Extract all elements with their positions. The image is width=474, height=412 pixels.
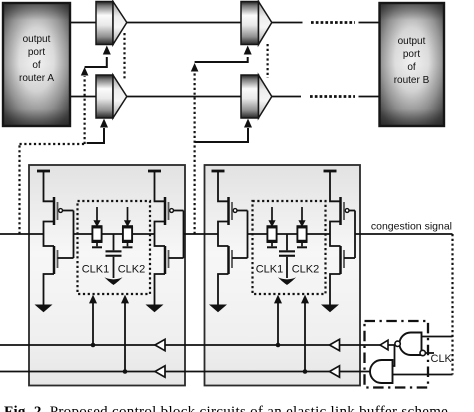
wire: data line 1 into router B: [359, 22, 380, 24]
capacitor C1 bottom plate: [106, 255, 122, 257]
output port of router A: [3, 3, 70, 126]
wire: dotted continuation of data line 1: [311, 21, 355, 24]
switch S3 input stem: [271, 207, 273, 221]
switch S1 top plate: [92, 225, 103, 227]
output port of router B: [380, 3, 445, 126]
wire: CLK1 feed riser (block 1): [92, 303, 94, 346]
VDD stem and PMOS source lead (inverter 1R): [155, 171, 166, 201]
elastic buffer stage block 2: [205, 165, 361, 386]
arrowhead of dotted enable at buffer B3 elbow: [191, 63, 199, 72]
tri-state buffer B3 (router B, line 1): [241, 2, 272, 45]
capacitor C1 lower stem: [113, 257, 115, 278]
dotted enable branch up to buffer B1 elbow: [83, 76, 85, 144]
wire: CLK1 bus (to NAND output): [0, 344, 395, 346]
ground (inverter 2L): [209, 305, 227, 313]
svg-text:CLK1: CLK1: [82, 264, 110, 276]
svg-text:of: of: [32, 60, 41, 71]
VDD bar (inverter 1L): [37, 170, 50, 173]
wire: buffer B3 output (data line 1): [272, 22, 303, 24]
direction arrow on CLK2 bus (block 1): [155, 366, 165, 377]
PMOS M5 gate bubble: [233, 209, 237, 213]
dash-dot clock gating box: [365, 321, 429, 388]
switch S1 input stem: [96, 207, 98, 221]
wire: inverter 1R gates across to inverter 2L drains: [184, 233, 219, 235]
svg-text:CLK2: CLK2: [292, 264, 320, 276]
wire: drain connector (inverter 2R): [330, 222, 341, 247]
CLK2 feed arrowhead into dotted box (block 2): [301, 295, 309, 304]
dotted box (clock switches, block 2): [253, 201, 326, 294]
capacitor C2 bottom plate: [279, 255, 295, 257]
junction: CLK1 riser on bus (block 2): [276, 343, 281, 348]
ground (inverter 1L): [35, 305, 53, 313]
switch S3 down arrowhead: [268, 220, 275, 227]
switch S4 input stem: [301, 207, 303, 221]
direction arrow on CLK2 bus (block 2): [330, 366, 340, 377]
wire: data line 2 into router B: [359, 96, 380, 98]
arrowhead of dotted enable at buffer B1 elbow: [81, 67, 89, 76]
switch S4 body: [297, 228, 306, 241]
wire: buffer B2 output to buffer B4 input: [127, 96, 242, 98]
wire: gate rail (inverter 2R): [354, 211, 356, 259]
PMOS M3 channel: [164, 197, 167, 225]
wire: inverter 2L gates through clock switches of block 2: [248, 233, 331, 235]
elastic buffer stage block 1: [29, 165, 185, 386]
ground (inverter 2R): [321, 305, 339, 313]
dotted enable line from congestion wire (middle riser): [194, 72, 196, 234]
PMOS M3 gate lead: [174, 210, 184, 212]
wire: NMOS source to ground (inverter 1R): [155, 274, 166, 305]
wire: dotted continuation of data line 2: [310, 95, 355, 98]
wire: drain connector (inverter 1R): [155, 222, 166, 247]
ground (capacitor C2): [278, 277, 296, 285]
wire: NMOS source to ground (inverter 2R): [330, 274, 341, 305]
switch S2 down arrowhead: [124, 220, 131, 227]
ground (inverter 1R): [146, 305, 164, 313]
tri-state buffer B2 (router A, line 2): [96, 75, 127, 118]
PMOS M1 gate lead: [63, 210, 74, 212]
NAND gate U1 (drives CLK1 bus): [399, 333, 421, 356]
switch S2 gate stem: [127, 243, 129, 246]
switch S3 gate bar: [267, 246, 277, 248]
VDD stem and PMOS source lead (inverter 1L): [44, 171, 55, 201]
svg-text:output: output: [398, 36, 426, 47]
switch S2 bottom plate: [122, 241, 133, 243]
NMOS M6 gate lead: [232, 257, 248, 259]
svg-text:port: port: [28, 47, 45, 58]
svg-text:router B: router B: [394, 75, 430, 86]
switch S1 gate bar: [92, 246, 102, 248]
dotted stub below buffer B3 tip: [267, 44, 269, 78]
switch S3 gate stem: [271, 243, 273, 246]
figure caption: [4, 405, 474, 412]
CLK2 feed arrowhead into dotted box (block 1): [121, 295, 129, 304]
wire: CLK2 feed riser (block 2): [304, 303, 306, 372]
direction arrow on CLK1 bus (block 2): [330, 339, 340, 350]
junction: CLK1 riser on bus (block 1): [91, 343, 96, 348]
solid elbow feeding buffer B4 enable: [195, 128, 248, 142]
svg-text:port: port: [403, 49, 420, 60]
direction arrow on CLK1 bus (gating box): [380, 340, 388, 350]
wire: NAND top input from congestion drop: [422, 336, 453, 338]
NMOS M8 gate bar: [343, 250, 345, 268]
svg-text:of: of: [407, 62, 416, 73]
enable arrow into buffer B1: [103, 46, 111, 55]
NMOS M4 gate lead: [169, 257, 184, 259]
solid elbow feeding buffer B1 enable: [85, 57, 107, 67]
svg-text:CLK: CLK: [431, 353, 453, 365]
junction: CLK2 riser on bus (block 2): [303, 369, 308, 374]
enable arrow into buffer B2: [100, 119, 108, 128]
switch S4 top plate: [297, 225, 308, 227]
svg-text:CLK1: CLK1: [256, 264, 284, 276]
CLK1 feed arrowhead into dotted box (block 1): [89, 295, 97, 304]
tri-state buffer B1 (router A, line 1): [96, 2, 127, 45]
solid elbow feeding buffer B2 enable: [87, 128, 104, 143]
wire: gate rail (inverter 2L): [247, 211, 249, 259]
enable arrow into buffer B4: [244, 119, 252, 128]
wire: CLK2 bus (to AND output): [0, 371, 375, 373]
VDD bar (inverter 2L): [212, 170, 225, 173]
wire: NMOS source to ground (inverter 2L): [218, 274, 229, 305]
NMOS M4 gate bar: [168, 250, 170, 268]
PMOS M5 channel: [227, 197, 230, 225]
enable arrow into buffer B3: [244, 46, 252, 55]
wire: inverter 2R gates out to congestion signal drop: [355, 233, 453, 235]
wire: drain connector (inverter 2L): [218, 222, 229, 247]
switch S4 gate stem: [301, 243, 303, 246]
switch S1 down arrowhead: [93, 220, 100, 227]
capacitor C2 lower stem: [286, 257, 288, 278]
PMOS M3 gate bar: [168, 202, 170, 220]
dotted enable line from congestion wire (left riser): [18, 144, 20, 234]
wire: buffer B1 output to buffer B3 input: [127, 22, 242, 24]
switch S2 top plate: [122, 225, 133, 227]
VDD bar (inverter 2R): [324, 170, 337, 173]
dotted box (clock switches, block 1): [78, 201, 151, 294]
direction arrow on CLK1 bus (block 1): [155, 339, 165, 350]
PMOS M7 gate bubble: [345, 209, 349, 213]
PMOS M5 gate lead: [237, 210, 247, 212]
capacitor C2 stem (block 2): [286, 234, 288, 250]
svg-text:output: output: [23, 34, 51, 45]
switch S3 body: [267, 228, 276, 241]
wire: CLK stub into NAND inverted input: [426, 352, 435, 354]
VDD stem and PMOS source lead (inverter 2R): [330, 171, 341, 201]
AND gate U2 (drives CLK2 bus): [370, 360, 393, 383]
wire: inverter 1L gates through clock switches of block 1: [74, 233, 155, 235]
NMOS M4 channel: [164, 246, 167, 274]
capacitor C1 stem (block 1): [113, 234, 115, 250]
capacitor C2 top plate: [279, 250, 295, 252]
switch S4 gate bar: [297, 246, 307, 248]
switch S2 input stem: [127, 207, 129, 221]
svg-text:CLK2: CLK2: [118, 264, 146, 276]
wire: AND top input tap from CLK1 bus: [393, 345, 395, 366]
wire: router A to buffer B1 input (data line 1): [70, 22, 96, 24]
capacitor C1 top plate: [106, 250, 122, 252]
switch S3 top plate: [267, 225, 278, 227]
wire: buffer B4 output (data line 2): [272, 96, 302, 98]
NMOS M2 channel: [53, 246, 56, 274]
NAND U1 output bubble: [395, 341, 400, 346]
wire: gate rail (inverter 1L): [73, 211, 75, 259]
NMOS M8 gate lead: [344, 257, 355, 259]
switch S3 bottom plate: [267, 241, 278, 243]
svg-text:congestion signal: congestion signal: [371, 221, 452, 233]
NMOS M2 gate bar: [57, 250, 59, 268]
VDD bar (inverter 1R): [148, 170, 161, 173]
wire: CLK1 feed riser (block 2): [277, 303, 279, 346]
wire: AND bottom input from congestion drop: [393, 374, 453, 376]
svg-text:router A: router A: [19, 73, 54, 84]
NMOS M2 gate lead: [58, 257, 74, 259]
NMOS M6 gate bar: [231, 250, 233, 268]
wire: CLK2 feed riser (block 1): [124, 303, 126, 372]
PMOS M5 gate bar: [231, 202, 233, 220]
dotted stub below buffer B1 tip: [123, 33, 125, 80]
PMOS M1 gate bubble: [59, 209, 63, 213]
PMOS M1 channel: [53, 197, 56, 225]
switch S2 body: [123, 228, 132, 241]
ground (capacitor C1): [105, 277, 123, 285]
switch S1 bottom plate: [92, 241, 103, 243]
PMOS M7 gate bar: [343, 202, 345, 220]
wire: gate rail (inverter 1R): [183, 211, 185, 259]
wire: congestion line left segment to inverter 1L drains: [0, 233, 44, 235]
NMOS M6 channel: [227, 246, 230, 274]
junction: CLK2 riser on bus (block 1): [123, 369, 128, 374]
VDD stem and PMOS source lead (inverter 2L): [218, 171, 229, 201]
wire: router A to buffer B2 input (data line 2): [70, 96, 96, 98]
PMOS M7 gate lead: [349, 210, 355, 212]
wire: NMOS source to ground (inverter 1L): [44, 274, 55, 305]
CLK1 feed arrowhead into dotted box (block 2): [274, 295, 282, 304]
switch S4 down arrowhead: [298, 220, 305, 227]
PMOS M7 channel: [339, 197, 342, 225]
PMOS M1 gate bar: [57, 202, 59, 220]
dotted enable line horizontal run below router A: [20, 143, 87, 145]
switch S4 bottom plate: [297, 241, 308, 243]
switch S2 gate bar: [123, 246, 133, 248]
dotted drop from congestion line to gating logic: [451, 234, 453, 375]
tri-state buffer B4 (router B, line 2): [241, 75, 272, 118]
NAND U1 inverted input bubble: [420, 350, 425, 355]
switch S1 gate stem: [96, 243, 98, 246]
PMOS M3 gate bubble: [170, 209, 174, 213]
switch S1 body: [92, 228, 101, 241]
wire: drain connector (inverter 1L): [44, 222, 55, 247]
NMOS M8 channel: [339, 246, 342, 274]
solid elbow feeding buffer B3 enable: [195, 57, 248, 62]
